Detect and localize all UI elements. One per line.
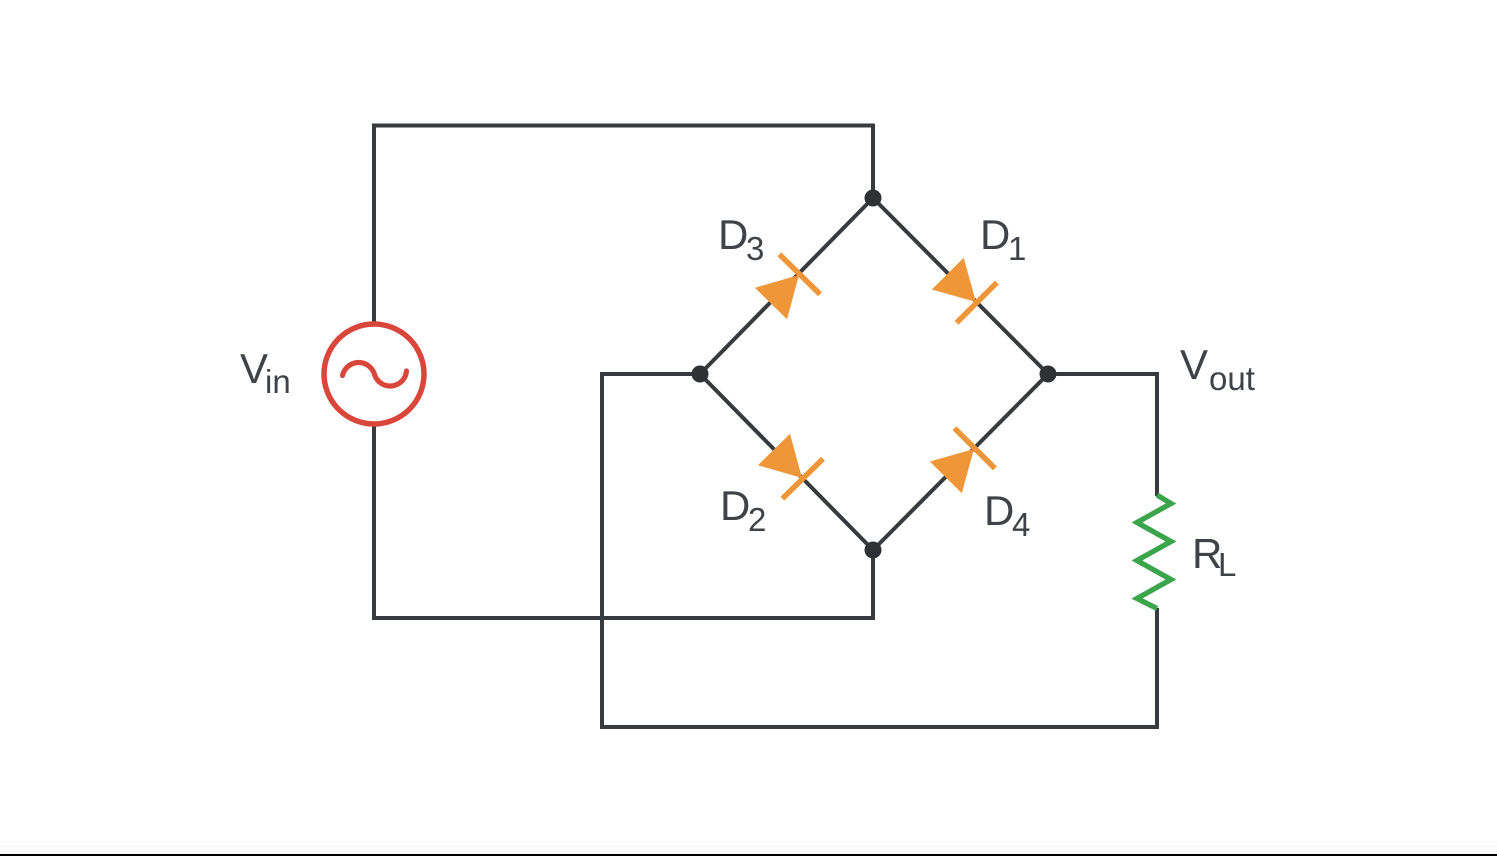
wire bridge edge: bottom node to right node [873, 374, 1048, 550]
wire bridge edge: left node to top node [700, 198, 873, 374]
svg-text:D: D [720, 482, 750, 529]
svg-text:2: 2 [748, 501, 766, 538]
label D2 [720, 482, 766, 538]
resistor RL [1137, 495, 1171, 609]
wire bridge edge: left node to bottom node [700, 374, 873, 550]
label Vin [240, 345, 291, 400]
wire top loop: Vin top to bridge top node [374, 126, 873, 326]
wire bottom loop: Vin bottom to bridge bottom node [374, 424, 873, 618]
ac source Vin [324, 324, 424, 424]
svg-text:3: 3 [746, 230, 764, 267]
svg-text:in: in [265, 363, 291, 400]
wire right-node: bridge right node to RL top [1049, 374, 1157, 496]
wire bridge edge: top node to right node [873, 198, 1048, 374]
svg-text:D: D [984, 487, 1014, 534]
label D4 [984, 487, 1030, 543]
node right [1040, 366, 1057, 383]
label D3 [718, 211, 764, 267]
svg-text:4: 4 [1012, 506, 1030, 543]
node left [692, 366, 709, 383]
svg-text:L: L [1218, 546, 1236, 583]
diode D2 [754, 429, 823, 498]
node bottom [865, 542, 882, 559]
svg-text:D: D [718, 211, 748, 258]
svg-text:V: V [1180, 341, 1208, 388]
svg-text:V: V [240, 345, 268, 392]
label RL [1192, 530, 1236, 583]
label Vout [1180, 341, 1255, 397]
svg-text:1: 1 [1008, 230, 1026, 267]
svg-text:D: D [980, 211, 1010, 258]
label D1 [980, 211, 1026, 267]
diode D1 [928, 254, 997, 323]
svg-text:out: out [1209, 360, 1255, 397]
diode D3 [751, 254, 820, 323]
diode D4 [926, 428, 995, 497]
node top [865, 190, 882, 207]
wire left-node loop: bridge left node to RL bottom [602, 374, 1157, 727]
